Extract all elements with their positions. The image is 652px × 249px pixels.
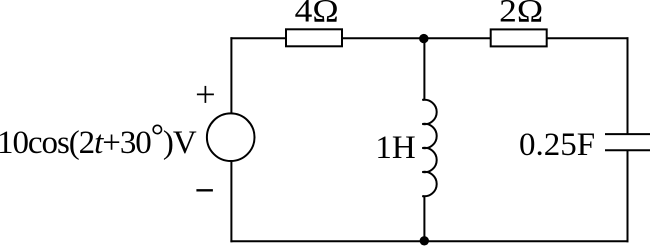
voltage source VS circle: [207, 113, 255, 161]
wire: top middle segment: [342, 37, 491, 39]
voltage source minus sign: [196, 189, 213, 191]
resistor R2 2ohm box: [491, 29, 547, 46]
voltage source plus sign: [197, 93, 214, 95]
node: bottom junction dot: [420, 236, 429, 245]
wire: top-right segment: [547, 37, 629, 39]
capacitor C1 bottom plate: [605, 149, 650, 151]
svg-text:2Ω: 2Ω: [499, 0, 543, 29]
resistor R1 4ohm box: [286, 29, 342, 46]
wire: bottom segment: [230, 240, 628, 242]
svg-text:1H: 1H: [375, 130, 415, 166]
wire: right upper segment: [627, 37, 629, 134]
wire: top-left segment: [230, 37, 286, 39]
node: top junction dot: [419, 34, 428, 43]
svg-text:4Ω: 4Ω: [295, 0, 339, 29]
wire: left upper segment: [230, 37, 232, 113]
svg-text:0.25F: 0.25F: [519, 127, 595, 163]
wire: left lower segment: [230, 162, 232, 243]
inductor L1 coil and middle branch wire: [422, 39, 436, 241]
capacitor C1 top plate: [605, 133, 650, 135]
svg-text:10cos(2t+30°)V: 10cos(2t+30°)V: [0, 119, 197, 162]
wire: right lower segment: [627, 150, 629, 242]
